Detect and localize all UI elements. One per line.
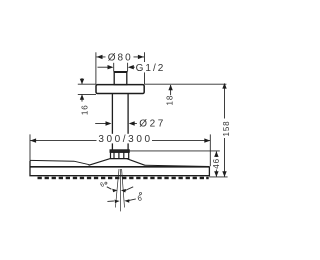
svg-text:Ø80: Ø80 (108, 53, 133, 64)
svg-text:18: 18 (166, 95, 175, 106)
svg-text:46: 46 (212, 158, 221, 169)
svg-text:158: 158 (222, 120, 231, 136)
svg-text:G1/2: G1/2 (136, 63, 166, 74)
svg-text:16: 16 (81, 104, 90, 115)
svg-text:300/300: 300/300 (98, 134, 152, 145)
svg-text:Ø27: Ø27 (139, 118, 166, 129)
